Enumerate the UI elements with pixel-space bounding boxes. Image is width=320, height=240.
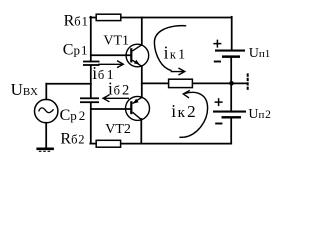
source AC sine (39, 108, 54, 113)
capacitor Cp1 (83, 61, 100, 66)
source AC circle (35, 99, 58, 122)
battery Up2 plus (215, 98, 223, 106)
ground (36, 148, 54, 151)
wire VT2 emitter vertical (141, 83, 143, 97)
battery Up1 minus (214, 61, 221, 63)
transistor VT2 emitter arrow (133, 99, 139, 104)
capacitor Cp2 (80, 97, 99, 103)
transistor VT1 collector lead (132, 45, 141, 51)
current loop ik2 arrow (183, 90, 190, 98)
transistor VT1 emitter lead (132, 60, 141, 66)
transistor VT2 circle (126, 96, 150, 120)
wire mid rail right to terminal (231, 82, 247, 84)
resistor R61 (96, 14, 121, 20)
current loop ik1 arrow (171, 68, 185, 75)
transistor VT1 circle (126, 44, 149, 67)
svg-text:Rб1: Rб1 (64, 13, 88, 30)
svg-text:Uп2: Uп2 (248, 107, 271, 122)
transistor VT2 collector lead (133, 112, 142, 119)
current loop ik1 (154, 26, 186, 71)
wire top rail (121, 17, 232, 19)
wire VT1 collector vertical (141, 18, 143, 45)
transistor VT1 base bar (130, 48, 132, 62)
battery Up1 (215, 50, 245, 58)
svg-text:Cр1: Cр1 (63, 41, 88, 58)
node base column mid segment (90, 66, 92, 98)
junction dot mid rail / battery column (229, 81, 234, 86)
wire battery column mid to Up2 (230, 83, 232, 110)
svg-text:VT2: VT2 (105, 122, 131, 137)
terminal bar right (247, 73, 249, 90)
svg-text:Cр2: Cр2 (60, 107, 86, 124)
wire VT1 emitter vertical (141, 66, 143, 83)
node base column lower segment (90, 103, 92, 143)
wire battery column Up1 to mid (230, 58, 232, 84)
battery Up2 (213, 111, 246, 119)
current arrow i62 (103, 95, 129, 102)
battery Up2 minus (215, 123, 222, 125)
current arrow i61 (98, 61, 123, 68)
wire top rail left stub (90, 17, 96, 19)
resistor load Rn (169, 79, 193, 87)
resistor R62 (96, 140, 120, 147)
wire input vertical (45, 84, 47, 100)
node base1 column upper segment (90, 17, 92, 61)
svg-text:Uп1: Uп1 (249, 46, 271, 61)
wire bottom rail left stub (90, 143, 96, 145)
wire mid rail center (192, 82, 231, 84)
transistor VT1 emitter arrow (134, 60, 140, 65)
transistor VT2 base bar (130, 101, 132, 114)
battery Up1 plus (213, 40, 221, 48)
svg-text:VT1: VT1 (103, 34, 129, 49)
wire input top (46, 83, 91, 85)
wire VT2 collector vertical (140, 119, 142, 144)
wire battery column upper (231, 17, 233, 50)
wire battery column below Up2 (230, 118, 232, 143)
transistor VT2 emitter lead (133, 97, 142, 103)
wire VT2 base (91, 108, 131, 110)
wire bottom rail (121, 143, 232, 145)
wire VT1 base (91, 54, 131, 56)
current loop ik2 (179, 92, 207, 137)
wire input source to ground (45, 123, 47, 148)
svg-text:Rб2: Rб2 (60, 131, 84, 148)
wire mid rail left (142, 82, 169, 84)
